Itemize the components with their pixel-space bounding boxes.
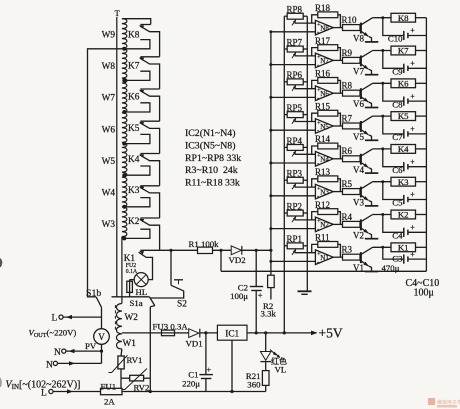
wire C9 to supply bus (408, 67, 427, 69)
ground symbol V1 emitter (365, 271, 378, 273)
svg-text:S1b: S1b (86, 288, 101, 299)
wire S2 to S1a riser (150, 290, 183, 298)
wire V3 collector to relay coil K3 (373, 181, 391, 183)
potentiometer RP6 wiper (292, 85, 296, 91)
svg-text:IC3(N5~N8): IC3(N5~N8) (185, 140, 235, 151)
wire bus A to op-amp N3 inverting input (271, 195, 316, 197)
ground symbol V5 emitter (365, 139, 378, 141)
svg-text:K4: K4 (128, 155, 140, 165)
wire S1b to L output (101, 307, 103, 317)
relay coil K6 (391, 79, 416, 88)
capacitor C9 (403, 64, 405, 73)
svg-text:3.3k: 3.3k (261, 308, 277, 318)
potentiometer RP5 wiper (292, 118, 296, 124)
potentiometer RP4 (287, 145, 303, 151)
wire bus A to op-amp N2 inverting input (271, 228, 316, 230)
fuse FU2 body (127, 281, 133, 292)
varistor RV1 (118, 356, 124, 369)
svg-text:+: + (410, 190, 415, 199)
node rail junction with IC1 ground (230, 390, 233, 393)
svg-text:+: + (410, 26, 415, 35)
wire C8 to supply bus (408, 100, 427, 102)
relay coil K3 (391, 177, 416, 186)
wire W1/W2 tap to FU3 (122, 332, 162, 334)
ground symbol V6 emitter (365, 107, 378, 109)
wire IC1 output +5V rail (247, 332, 317, 334)
wire op-amp N6 output (333, 92, 342, 94)
wire long horizontal bus to relay supply (221, 270, 426, 272)
svg-text:C6: C6 (392, 165, 403, 175)
wire R21 to ground rail (265, 385, 267, 391)
svg-text:L: L (52, 314, 58, 324)
svg-text:360: 360 (247, 380, 261, 390)
svg-text:K1: K1 (398, 242, 409, 252)
wire V8 emitter to ground (369, 36, 372, 42)
transistor V1 (360, 252, 362, 263)
relay coil K7 (391, 46, 416, 55)
diode VD2 (231, 246, 241, 255)
transistor V8 (360, 23, 362, 34)
wire C3 to supply bus (408, 258, 427, 260)
transformer winding W3-W9 (upper sections) (122, 19, 127, 237)
transistor V2 (360, 219, 362, 230)
resistor R12 feedback (318, 209, 338, 215)
op-amp N6 (315, 86, 333, 101)
node collector K6/C8 (381, 82, 384, 85)
wire C2 to +5V rail (255, 291, 257, 333)
wire R2 bottom stub (270, 288, 272, 300)
switch S1a blade (150, 297, 155, 306)
tap wire and fixed contact of K3 (124, 198, 150, 207)
transistor V7 emitter arrow (363, 65, 368, 69)
svg-text:K3: K3 (128, 186, 140, 196)
potentiometer RP3 (287, 177, 303, 183)
wire +5V to LED VL (265, 333, 267, 352)
fuse FU3 (162, 330, 175, 336)
wire V7 collector to relay coil K7 (373, 50, 391, 52)
svg-text:V2: V2 (353, 230, 364, 240)
wire RP3 to bus C (303, 179, 307, 181)
wire bottom ground rail (122, 391, 266, 393)
wire FU2 branch down to rail (129, 280, 131, 297)
relay contact K5 blade and chain wire (140, 123, 160, 154)
wire R12 to non-inverting node (312, 212, 318, 220)
resistor R1 (198, 247, 213, 253)
wire winding mid plain segment (121, 237, 123, 304)
transistor V3 (360, 187, 362, 198)
node collector K5/C7 (381, 115, 384, 118)
op-amp N2 (315, 217, 333, 232)
wire bus B to RP6 (284, 81, 287, 83)
wire LED to R21 (265, 362, 267, 371)
wire relay supply bus vertical (425, 18, 427, 272)
svg-text:+5V: +5V (319, 326, 343, 341)
node +5V rail to LED branch (264, 331, 267, 334)
svg-text:N8: N8 (320, 24, 329, 32)
svg-text:K7: K7 (398, 46, 409, 56)
wire R14 to op-amp N4 output (338, 146, 341, 159)
terminal L output circle (59, 315, 63, 319)
wire winding bottom to RV1 (120, 349, 123, 356)
wire R11 to non-inverting node (312, 244, 318, 252)
wire C4 to supply bus (408, 231, 427, 233)
svg-text:IC2(N1~N4): IC2(N1~N4) (185, 128, 235, 139)
svg-text:W3: W3 (102, 220, 116, 230)
wire C7 to supply bus (408, 133, 427, 135)
wire riser S1a/S2 to bottom rail (149, 307, 151, 392)
wire chain stub above K8 (140, 24, 150, 26)
wire divider bus B (+5V to RP string) (283, 16, 285, 333)
svg-text:RV2: RV2 (134, 383, 150, 393)
relay coil K5 (391, 112, 416, 121)
tap wire and fixed contact of K8 (124, 40, 150, 49)
watermark bottom right (428, 398, 435, 405)
capacitor C6 (403, 162, 405, 171)
wire FU3 to VD1 (175, 332, 189, 334)
wire node down to FU1 rail (120, 378, 122, 388)
wire lamp to FU2 (130, 279, 135, 281)
svg-text:N4: N4 (320, 156, 329, 164)
svg-text:+: + (410, 223, 415, 232)
terminal L input circle (49, 389, 53, 393)
wire V2 emitter to ground (369, 233, 372, 239)
ground symbol V2 emitter (365, 238, 378, 240)
node bus A row 2 (269, 227, 272, 230)
svg-text:-: - (317, 259, 319, 266)
wire bus B to RP5 (284, 114, 287, 116)
switch S2 fixed contact bar (174, 279, 183, 281)
wire V1 collector to relay coil K1 (373, 246, 391, 248)
resistor R10 base (343, 25, 361, 31)
wire C1 to ground rail (205, 379, 207, 392)
wire RP6 to bus C (303, 81, 307, 83)
potentiometer RP3 wiper (292, 184, 296, 190)
contact blade pivot arrow K7 (139, 57, 144, 60)
wire from K8 tap down to switch S1b (88, 49, 125, 297)
wire bus A to op-amp N8 inverting input (271, 31, 316, 33)
wire divider bus C (ground side) (306, 16, 308, 291)
wire bus B to RP3 (284, 179, 287, 181)
svg-text:N5: N5 (320, 123, 329, 131)
resistor R11 feedback (318, 242, 338, 248)
wire R18 to op-amp N8 output (338, 15, 341, 28)
svg-text:100μ: 100μ (414, 288, 434, 299)
node rail junction with RV2 branch (149, 390, 152, 393)
wire chain stub above K6 (140, 88, 159, 90)
svg-text:220μ: 220μ (182, 378, 200, 388)
wire down to switch S2 (170, 250, 172, 285)
node N junction (100, 350, 103, 353)
wire op-amp N5 output (333, 125, 342, 127)
svg-text:R8: R8 (342, 81, 353, 91)
svg-text:C10: C10 (388, 34, 403, 44)
op-amp N7 (315, 53, 333, 68)
svg-text:V8: V8 (353, 34, 364, 44)
node VD1 output to C1 (204, 331, 207, 334)
wire op-amp N4 output (333, 158, 342, 160)
node bus A row 8 (269, 30, 272, 33)
wire RP2 to bus C (303, 212, 307, 214)
ground symbol (divider) (298, 290, 312, 292)
ground symbol V4 emitter (365, 172, 378, 174)
node +5V rail to bus B (283, 331, 286, 334)
wire V7 emitter to ground (369, 69, 372, 75)
contact blade pivot arrow K4 (139, 154, 144, 158)
capacitor C3 (403, 255, 405, 264)
wire chain stub above K3 (140, 185, 159, 187)
wire R16 to non-inverting node (312, 80, 318, 88)
svg-text:K3: K3 (398, 177, 409, 187)
svg-text:R3~R10 24k: R3~R10 24k (185, 165, 238, 176)
transistor V4 (360, 154, 362, 165)
svg-text:PV: PV (85, 341, 97, 351)
wire C10 to supply bus (408, 35, 427, 37)
svg-text:+: + (410, 59, 415, 68)
tap wire and fixed contact of K6 (124, 103, 150, 112)
capacitor C2 100u (250, 286, 263, 288)
wire to capacitor C3 (383, 247, 404, 259)
potentiometer RP5 (287, 112, 303, 118)
svg-text:V7: V7 (353, 66, 364, 76)
wire RP1 wiper to op-amp N1 non-inverting input (295, 252, 316, 254)
svg-text:K5: K5 (398, 111, 409, 121)
contact blade pivot arrow K5 (139, 122, 144, 126)
relay contact K8 blade and chain wire (140, 26, 160, 57)
op-amp N8 (315, 20, 333, 35)
svg-text:R7: R7 (342, 113, 353, 123)
wire V3 emitter to ground (369, 200, 372, 206)
wire bus A to op-amp N4 inverting input (271, 162, 316, 164)
svg-text:V6: V6 (353, 99, 364, 109)
resistor R9 base (343, 57, 361, 63)
svg-text:N1: N1 (320, 254, 329, 262)
wire V8 collector to relay coil K8 (373, 17, 391, 19)
wire relay K2 to supply bus (416, 214, 427, 216)
node collector K2/C4 (381, 213, 384, 216)
resistor R7 base (343, 123, 361, 129)
transistor V3 emitter arrow (363, 196, 368, 200)
wire chain stub above K2 (140, 217, 159, 219)
relay coil K4 (391, 145, 416, 154)
resistor R15 feedback (318, 110, 338, 116)
svg-text:W5: W5 (102, 157, 116, 167)
wire to capacitor C7 (383, 116, 404, 134)
wire R18 to non-inverting node (312, 15, 318, 23)
potentiometer RP8 (287, 13, 303, 19)
resistor R17 feedback (318, 45, 338, 51)
svg-text:K8: K8 (128, 31, 140, 41)
svg-text:K2: K2 (128, 217, 140, 227)
svg-text:VD2: VD2 (229, 255, 246, 265)
wire chain stub above K7 (140, 56, 159, 58)
contact blade pivot arrow K6 (139, 90, 144, 94)
ground symbol V7 emitter (365, 74, 378, 76)
tap wire and fixed contact of K5 (124, 134, 150, 143)
wire VD2 output to C2 (255, 250, 257, 286)
node tap junction W3/W2 (122, 236, 126, 240)
node collector K7/C9 (381, 49, 384, 52)
wire VD1 to IC1 (200, 332, 218, 334)
wire PV to N line (101, 344, 103, 363)
transistor V7 (360, 55, 362, 66)
svg-text:N2: N2 (320, 221, 329, 229)
arrow on L output wire (66, 315, 72, 319)
wire R13 to op-amp N3 output (338, 179, 341, 192)
svg-text:N6: N6 (320, 90, 329, 98)
svg-text:K4: K4 (398, 144, 409, 154)
node tap junction W6/W5 (122, 142, 126, 146)
svg-text:+: + (410, 125, 415, 134)
node bus A row 7 (269, 63, 272, 66)
svg-text:C9: C9 (392, 67, 403, 77)
transistor V5 emitter arrow (363, 131, 368, 135)
potentiometer RP1 wiper (292, 249, 296, 255)
transformer winding W1-W2 (lower sections) (117, 304, 122, 350)
potentiometer RP1 (287, 243, 303, 249)
wire RP5 to bus C (303, 114, 307, 116)
wire RP7 wiper to op-amp N7 non-inverting input (295, 55, 316, 57)
resistor R8 base (343, 90, 361, 96)
svg-text:V: V (98, 332, 105, 342)
varistor RV1 diagonal stroke (109, 355, 128, 372)
svg-text:RV1: RV1 (127, 355, 143, 365)
contact blade pivot arrow K2 (139, 219, 144, 223)
potentiometer RP7 (287, 46, 303, 52)
resistor R18 feedback (318, 12, 338, 18)
wire R13 to non-inverting node (312, 179, 318, 187)
svg-text:R6: R6 (342, 146, 353, 156)
transistor V1 emitter arrow (363, 262, 368, 266)
wire secondary rail to S1a (112, 296, 150, 298)
resistor R4 base (343, 221, 361, 227)
wire V5 emitter to ground (369, 135, 372, 141)
wire relay K3 to supply bus (416, 181, 427, 183)
svg-text:+: + (410, 157, 415, 166)
relay contact K4 blade and chain wire (140, 155, 160, 186)
tap wire and fixed contact of K7 (124, 71, 150, 80)
switch S2 blade (171, 285, 182, 290)
node tap junction W7/W6 (122, 110, 126, 114)
wire L line to voltmeter PV (101, 317, 103, 329)
svg-text:K6: K6 (398, 78, 409, 88)
wire relay K5 to supply bus (416, 115, 427, 117)
resistor R21 360 (262, 371, 269, 386)
svg-text:HL: HL (136, 287, 148, 297)
node tap junction W4/W3 (122, 205, 126, 209)
wire V6 collector to relay coil K6 (373, 82, 391, 84)
wire R14 to non-inverting node (312, 146, 318, 154)
wire riser R1 node to bottom bus (220, 250, 222, 271)
wire to capacitor C8 (383, 83, 404, 101)
wire R17 to op-amp N7 output (338, 48, 341, 61)
svg-text:RP1~RP8 33k: RP1~RP8 33k (185, 153, 241, 164)
op-amp N4 (315, 152, 333, 167)
svg-text:N7: N7 (320, 57, 329, 65)
wire node to RV2 (121, 377, 130, 379)
diode VD1 (189, 329, 199, 338)
svg-text:R5: R5 (342, 179, 353, 189)
wire V5 collector to relay coil K5 (373, 115, 391, 117)
svg-text:V4: V4 (353, 165, 364, 175)
svg-text:N: N (46, 360, 53, 370)
wire V4 emitter to ground (369, 168, 372, 174)
wire RP8 wiper to op-amp N8 non-inverting input (295, 22, 316, 24)
wire to capacitor C9 (383, 51, 404, 69)
svg-text:W4: W4 (102, 189, 116, 199)
svg-text:+: + (410, 250, 415, 259)
svg-text:470μ: 470μ (382, 263, 400, 273)
wire to capacitor C1 (205, 333, 207, 375)
svg-text:R4: R4 (342, 212, 353, 222)
node R1/VD2 junction (219, 249, 222, 252)
svg-text:R9: R9 (342, 48, 353, 58)
svg-text:K6: K6 (128, 93, 140, 103)
wire RP5 wiper to op-amp N5 non-inverting input (295, 121, 316, 123)
wire bus B to RP8 (284, 15, 287, 17)
node bus A row 1 (269, 260, 272, 263)
svg-text:W9: W9 (102, 31, 116, 41)
wire V1 emitter to ground (369, 266, 372, 272)
wire V4 collector to relay coil K4 (373, 148, 391, 150)
node collector K4/C6 (381, 147, 384, 150)
svg-text:W8: W8 (102, 62, 116, 72)
wire relay K1 to supply bus (416, 246, 427, 248)
transistor V4 emitter arrow (363, 163, 368, 167)
wire relay K7 to supply bus (416, 50, 427, 52)
wire bus B to RP1 (284, 245, 287, 247)
wire chain stub above K4 (140, 153, 159, 155)
wire R15 to op-amp N5 output (338, 113, 341, 126)
resistor R13 feedback (318, 176, 338, 182)
node collector K8/C10 (381, 16, 384, 19)
transistor V6 (360, 88, 362, 99)
node bus A row 4 (269, 162, 272, 165)
wire relay K6 to supply bus (416, 82, 427, 84)
wire op-amp N8 output (333, 27, 342, 29)
relay coil K2 (391, 210, 416, 219)
ground symbol V3 emitter (365, 205, 378, 207)
wire bus B to RP4 (284, 146, 287, 148)
wire RP8 to bus C (303, 15, 307, 17)
capacitor C1 220u (199, 374, 213, 376)
dashed core segment near W2 (114, 305, 116, 331)
svg-text:C8: C8 (392, 99, 403, 109)
svg-text:+: + (258, 290, 263, 300)
arrow +5V (311, 331, 318, 336)
svg-text:T: T (115, 9, 120, 18)
capacitor C7 (403, 129, 405, 138)
potentiometer RP8 wiper (292, 20, 296, 26)
node collector K3/C5 (381, 180, 384, 183)
transistor V5 (360, 121, 362, 132)
relay contact K1 blade to lamp HL (139, 252, 153, 279)
relay coil K8 (391, 13, 416, 22)
op-amp N3 (315, 184, 333, 199)
svg-text:K5: K5 (128, 124, 140, 134)
wire RP1 to bus C (303, 245, 307, 247)
wire op-amp N1 output (333, 256, 342, 258)
wire R17 to non-inverting node (312, 48, 318, 56)
wire R16 to op-amp N6 output (338, 80, 341, 93)
wire RP3 wiper to op-amp N3 non-inverting input (295, 186, 316, 188)
wire relay K8 to supply bus (416, 17, 427, 19)
svg-text:2A: 2A (104, 397, 115, 407)
wire N output (66, 350, 102, 352)
wire to capacitor C5 (383, 182, 404, 200)
capacitor C8 (403, 97, 405, 106)
svg-text:C5: C5 (392, 198, 403, 208)
relay contact K6 blade and chain wire (140, 90, 160, 121)
